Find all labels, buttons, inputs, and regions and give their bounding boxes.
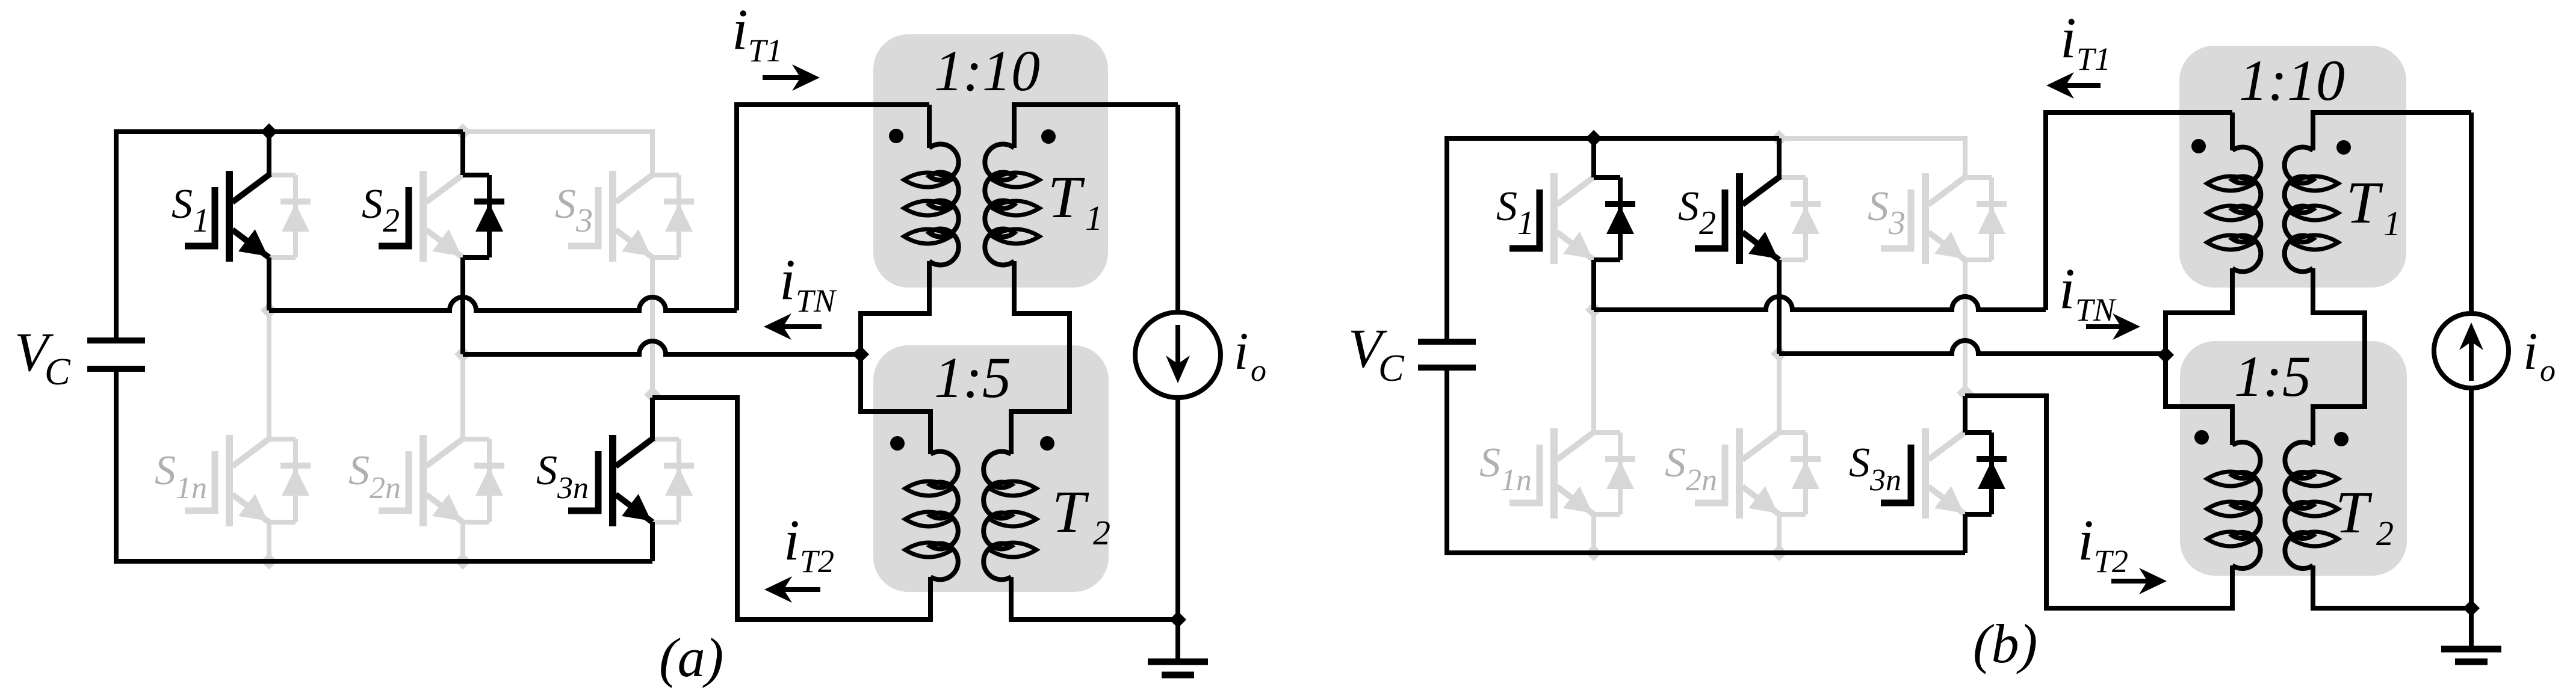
svg-text:T2: T2	[800, 543, 834, 579]
svg-text:1: 1	[193, 202, 209, 239]
svg-text:T: T	[1048, 164, 1085, 230]
svg-text:T1: T1	[2076, 41, 2111, 77]
svg-text:S: S	[1849, 440, 1870, 486]
svg-text:S: S	[536, 448, 557, 494]
svg-text:(a): (a)	[659, 627, 723, 688]
svg-text:i: i	[2060, 5, 2076, 70]
svg-text:C: C	[45, 350, 71, 393]
svg-text:TN: TN	[796, 283, 837, 319]
svg-text:T: T	[2346, 169, 2383, 236]
svg-text:S: S	[555, 181, 576, 227]
svg-text:2: 2	[1699, 205, 1716, 242]
svg-text:i: i	[2059, 256, 2075, 321]
svg-text:3: 3	[1888, 205, 1906, 242]
svg-text:i: i	[732, 0, 748, 61]
svg-text:1: 1	[1517, 205, 1534, 242]
svg-text:(b): (b)	[1973, 613, 2037, 674]
svg-text:T1: T1	[748, 32, 782, 69]
svg-text:S: S	[1678, 183, 1699, 230]
svg-text:1n: 1n	[1500, 463, 1532, 497]
svg-text:S: S	[1479, 440, 1500, 486]
svg-text:S: S	[348, 448, 370, 494]
svg-text:S: S	[1665, 440, 1686, 486]
svg-text:T: T	[2335, 479, 2373, 546]
svg-text:1:10: 1:10	[2239, 48, 2345, 112]
svg-text:S: S	[362, 181, 383, 227]
svg-text:C: C	[1378, 346, 1405, 389]
svg-text:i: i	[779, 247, 796, 312]
svg-text:o: o	[1251, 354, 1266, 388]
svg-text:2: 2	[1093, 513, 1110, 552]
svg-text:2n: 2n	[370, 471, 401, 505]
svg-text:1: 1	[2383, 204, 2401, 243]
svg-text:1n: 1n	[176, 471, 207, 505]
svg-text:1:5: 1:5	[2234, 344, 2311, 408]
svg-text:i: i	[2523, 322, 2537, 381]
svg-text:TN: TN	[2075, 292, 2117, 328]
svg-text:3n: 3n	[1869, 463, 1901, 497]
svg-text:S: S	[1496, 183, 1517, 230]
svg-text:S: S	[1868, 183, 1889, 230]
svg-text:2: 2	[2376, 514, 2394, 553]
svg-text:T2: T2	[2094, 543, 2128, 579]
svg-text:T: T	[1052, 478, 1089, 545]
svg-text:i: i	[2078, 508, 2094, 572]
svg-text:1: 1	[1085, 199, 1103, 238]
svg-text:2n: 2n	[1686, 463, 1717, 497]
svg-text:2: 2	[383, 202, 400, 239]
svg-text:1:10: 1:10	[934, 38, 1040, 103]
svg-text:i: i	[1234, 322, 1248, 381]
svg-text:o: o	[2540, 354, 2556, 388]
svg-text:1:5: 1:5	[934, 345, 1011, 410]
svg-text:S: S	[155, 448, 176, 494]
svg-text:S: S	[172, 181, 193, 227]
svg-text:3n: 3n	[557, 471, 589, 505]
svg-text:i: i	[784, 508, 800, 572]
svg-text:3: 3	[575, 202, 593, 239]
